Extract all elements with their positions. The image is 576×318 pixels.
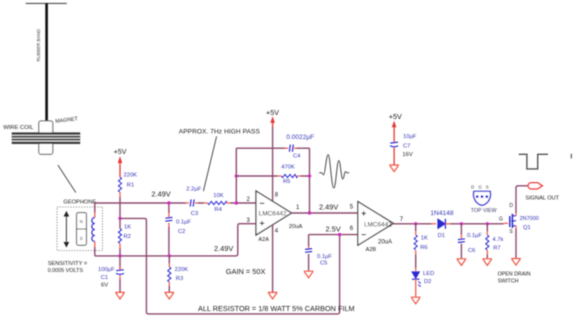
label pin 4 xyxy=(275,228,279,234)
ground: Q1 source xyxy=(511,259,521,266)
svg-text:0.0022µF: 0.0022µF xyxy=(286,134,314,141)
node: divider tap xyxy=(118,217,121,220)
resistor R3 xyxy=(168,267,171,292)
node: R6 tap xyxy=(414,222,417,225)
svg-text:20uA: 20uA xyxy=(378,240,392,246)
node: C6 tap xyxy=(460,222,463,225)
label ALL RESISTOR note xyxy=(198,304,355,313)
svg-text:LMC6442: LMC6442 xyxy=(259,210,287,217)
svg-text:16V: 16V xyxy=(402,152,412,158)
svg-text:R2: R2 xyxy=(124,234,131,240)
transistor Q1 xyxy=(504,213,516,229)
node: R7 tap xyxy=(486,222,489,225)
wire: geophone left vertical (bottom) xyxy=(94,247,96,256)
node: output junction xyxy=(308,211,311,214)
ground: C7 xyxy=(389,165,399,172)
capacitor C6 xyxy=(458,239,465,243)
svg-text:C7: C7 xyxy=(403,143,410,149)
svg-text:1K: 1K xyxy=(124,224,131,230)
svg-text:GAIN = 50X: GAIN = 50X xyxy=(226,267,266,276)
label pin 8 xyxy=(275,193,279,199)
svg-text:10K: 10K xyxy=(213,193,223,199)
svg-text:R1: R1 xyxy=(127,182,134,188)
label pin 1 xyxy=(296,205,300,211)
wire: rail to R3 xyxy=(168,256,170,267)
svg-text:+5V: +5V xyxy=(114,147,127,156)
svg-text:R6: R6 xyxy=(420,245,427,251)
capacitor C4 (series) xyxy=(285,145,296,152)
wire: R2 bottom to rail xyxy=(119,248,121,256)
wire: pin 6 row xyxy=(309,234,358,236)
wire: pin 4 to ground xyxy=(272,225,274,292)
svg-text:2.5V: 2.5V xyxy=(326,224,341,233)
svg-text:7: 7 xyxy=(400,217,404,223)
resistor R1 xyxy=(118,177,121,197)
geophone physical drawing: top support bar xyxy=(26,2,67,4)
svg-text:2: 2 xyxy=(247,197,251,203)
label R7 value xyxy=(492,237,503,252)
ground: R7 xyxy=(483,259,493,266)
tick mark right edge xyxy=(570,154,572,159)
wire: C2 branch vertical xyxy=(168,203,170,256)
svg-text:C2: C2 xyxy=(178,229,185,235)
svg-text:2.49V: 2.49V xyxy=(214,244,233,253)
svg-text:1N4148: 1N4148 xyxy=(430,210,453,217)
resistor R5 (series) xyxy=(278,174,301,177)
resistor R7 xyxy=(486,235,489,250)
pointer line from coil to geophone symbol xyxy=(58,165,76,192)
wire: feedback left vertical xyxy=(235,148,237,203)
wire: feedback R5 row xyxy=(236,175,309,177)
wire: R6/LED branch xyxy=(415,224,417,271)
svg-text:D: D xyxy=(509,203,513,209)
label C5 value xyxy=(317,254,332,267)
label C2 value xyxy=(176,219,191,235)
svg-text:220K: 220K xyxy=(175,267,189,273)
label MAGNET xyxy=(55,116,79,125)
svg-text:0.0005 VOLTS: 0.0005 VOLTS xyxy=(48,268,84,274)
svg-text:G: G xyxy=(499,216,503,222)
label 2.5V xyxy=(326,224,341,233)
svg-text:C1: C1 xyxy=(101,275,108,281)
svg-text:1: 1 xyxy=(296,205,300,211)
resistor R6 xyxy=(414,235,417,250)
svg-text:0.1µF: 0.1µF xyxy=(176,219,191,225)
label D1 value xyxy=(430,210,453,239)
svg-text:WIRE COIL: WIRE COIL xyxy=(3,125,34,131)
svg-text:A2A: A2A xyxy=(258,237,269,243)
square pulse symbol xyxy=(519,154,548,169)
wire: A2A output to A2B pin5 xyxy=(292,212,358,214)
label R6 value xyxy=(420,235,428,250)
transistor top view D G S labels xyxy=(471,184,489,189)
svg-text:R4: R4 xyxy=(214,207,222,213)
label 2.49V (A2B input) xyxy=(319,202,338,211)
node: feedback left mid xyxy=(235,174,238,177)
label D2 value xyxy=(423,271,434,285)
label GAIN = 50X xyxy=(226,267,266,276)
label R5 value xyxy=(281,164,295,185)
svg-text:+5V: +5V xyxy=(266,108,279,117)
svg-text:LMC6442: LMC6442 xyxy=(364,221,392,228)
label WIRE COIL xyxy=(3,125,34,131)
svg-text:20uA: 20uA xyxy=(289,224,303,230)
op-amp U1B xyxy=(358,202,394,253)
svg-text:2N7000: 2N7000 xyxy=(520,216,539,222)
geophone symbol: magnet N/S xyxy=(77,213,87,246)
svg-text:C3: C3 xyxy=(191,211,198,217)
svg-text:OPEN DRAIN: OPEN DRAIN xyxy=(498,272,531,278)
node: feedback right mid xyxy=(308,174,311,177)
ground: LED xyxy=(411,297,421,304)
label APPROX 7Hz HIGH PASS xyxy=(179,129,261,136)
wire: Q1 source down xyxy=(515,229,517,258)
svg-text:MAGNET: MAGNET xyxy=(55,116,79,125)
svg-text:GEOPHONE: GEOPHONE xyxy=(63,199,96,205)
geophone physical drawing: wire coil bars xyxy=(12,132,81,144)
svg-text:5: 5 xyxy=(350,204,354,210)
+5V power for C7 xyxy=(389,112,402,142)
geophone physical drawing: magnet body xyxy=(39,121,53,154)
label R3 value xyxy=(175,267,189,282)
wire: R7 branch xyxy=(486,224,488,258)
svg-text:+5V: +5V xyxy=(389,112,402,121)
geophone physical drawing: rubber band (thick vertical line) xyxy=(45,3,48,121)
svg-text:N: N xyxy=(80,219,83,224)
seismic waveform squiggle xyxy=(319,155,349,188)
wire: feedback right vertical xyxy=(309,148,311,213)
label C1 value xyxy=(98,267,115,289)
label C4 value xyxy=(286,134,314,160)
svg-text:TOP VIEW: TOP VIEW xyxy=(471,208,497,214)
node: rail at C2/R3 xyxy=(168,254,171,257)
geophone symbol dashed box xyxy=(57,207,103,251)
label SENSITIVITY xyxy=(48,261,88,274)
label R2 value xyxy=(124,224,132,240)
label pin 7 xyxy=(400,217,404,223)
label TOP VIEW xyxy=(471,208,497,214)
svg-text:SIGNAL OUT: SIGNAL OUT xyxy=(525,195,559,201)
svg-text:R3: R3 xyxy=(176,276,183,282)
label pin 5 xyxy=(350,204,354,210)
svg-text:ALL RESISTOR = 1/8 WATT 5% CAR: ALL RESISTOR = 1/8 WATT 5% CARBON FILM xyxy=(198,304,355,313)
wire: pin 8 vertical xyxy=(272,127,274,201)
resistor R2 xyxy=(118,229,121,248)
wire: bottom rail to pin3 xyxy=(95,224,256,256)
ground: C5 xyxy=(304,271,314,278)
svg-text:6: 6 xyxy=(350,226,354,232)
wire: C5 branch xyxy=(308,235,310,271)
label RUBBER BAND (rotated) xyxy=(36,28,41,61)
ground: op-amp pin 4 xyxy=(268,292,278,299)
svg-text:SENSITIVITY =: SENSITIVITY = xyxy=(48,261,88,267)
svg-text:S: S xyxy=(80,236,83,241)
wire: R1 to R2 through junction xyxy=(119,197,121,229)
svg-text:G: G xyxy=(478,184,482,189)
node: rail at R2/C1 xyxy=(118,254,121,257)
wire: geophone left vertical (top) xyxy=(94,202,96,212)
label OPEN DRAIN SWITCH xyxy=(498,272,531,285)
svg-text:0.1µF: 0.1µF xyxy=(467,233,482,239)
diode D1 xyxy=(432,219,450,229)
svg-text:10µF: 10µF xyxy=(403,134,417,140)
label GEOPHONE xyxy=(63,199,96,205)
svg-text:SWITCH: SWITCH xyxy=(498,278,519,284)
svg-text:2.2µF: 2.2µF xyxy=(186,187,201,193)
transistor TO-92 top view xyxy=(474,191,491,205)
svg-text:0.1µF: 0.1µF xyxy=(317,254,332,260)
svg-text:R5: R5 xyxy=(283,179,290,185)
label R4 value xyxy=(213,193,223,213)
svg-text:4: 4 xyxy=(275,228,279,234)
label R1 value xyxy=(124,172,138,188)
svg-text:Q1: Q1 xyxy=(523,225,531,231)
wire: feedback top with C4 xyxy=(236,147,309,149)
ground: C1 xyxy=(115,292,125,299)
svg-text:100µF: 100µF xyxy=(98,267,115,273)
label C6 value xyxy=(467,233,482,254)
svg-text:APPROX. 7Hz HIGH PASS: APPROX. 7Hz HIGH PASS xyxy=(179,129,261,136)
wire: divider tap to pin6 (long bottom route) xyxy=(120,218,340,314)
svg-text:220K: 220K xyxy=(124,172,138,178)
node: feedback left bottom xyxy=(235,201,238,204)
label pin 6 xyxy=(350,226,354,232)
op-amp U1A xyxy=(256,191,292,243)
wire: Q1 drain up to signal out xyxy=(516,186,529,213)
svg-text:R7: R7 xyxy=(493,246,500,252)
svg-text:A2B: A2B xyxy=(366,247,377,253)
svg-text:D2: D2 xyxy=(424,279,431,285)
label 20uA B xyxy=(378,240,392,246)
pointer line for high pass note xyxy=(203,136,216,191)
+5V power for op-amp pin 8 xyxy=(266,108,279,128)
svg-text:D1: D1 xyxy=(438,233,445,239)
resistor R4 (series) xyxy=(204,201,230,204)
label 20uA A xyxy=(289,224,303,230)
label 2.49V (pin3 rail) xyxy=(214,244,233,253)
capacitor C7 xyxy=(390,142,398,165)
svg-text:2.49V: 2.49V xyxy=(151,190,170,199)
svg-text:C4: C4 xyxy=(293,154,301,160)
svg-text:4.7k: 4.7k xyxy=(492,237,503,243)
ground: R3 xyxy=(165,292,175,299)
geophone symbol: motion double arrow xyxy=(64,212,68,247)
wire: rail to C1 xyxy=(119,256,121,270)
label C3 value xyxy=(186,187,201,217)
svg-text:S: S xyxy=(509,229,513,235)
label Q1 D G S pins xyxy=(499,203,513,235)
svg-text:1K: 1K xyxy=(421,235,428,241)
label SIGNAL OUT xyxy=(525,195,559,201)
svg-text:D: D xyxy=(471,184,474,189)
node: C2 top xyxy=(167,201,170,204)
ground: C6 xyxy=(457,259,467,266)
svg-text:C5: C5 xyxy=(320,261,327,267)
capacitor C5 xyxy=(305,249,312,253)
capacitor C1 xyxy=(116,270,124,292)
label C7 value xyxy=(402,134,416,158)
label pin 3 xyxy=(247,218,251,224)
svg-text:RUBBER BAND: RUBBER BAND xyxy=(36,28,41,61)
svg-text:LED: LED xyxy=(423,271,434,277)
+5V power for R1 xyxy=(114,147,127,177)
node: pin6 / bottom route xyxy=(338,233,341,236)
label pin 2 xyxy=(247,197,251,203)
wire: geophone top to C3/R4/pin2 xyxy=(95,202,256,204)
wire: A2B output row xyxy=(393,223,503,225)
svg-text:470K: 470K xyxy=(281,164,295,170)
label 2.49V (top wire) xyxy=(151,190,170,199)
label Q1 value xyxy=(520,216,539,231)
wire: C6 branch xyxy=(460,224,462,258)
svg-text:C6: C6 xyxy=(468,248,475,254)
connector SIGNAL OUT pill xyxy=(528,183,542,189)
svg-text:6V: 6V xyxy=(101,283,108,289)
capacitor C2 xyxy=(165,217,172,221)
capacitor C3 (series) xyxy=(186,199,198,206)
svg-text:2.49V: 2.49V xyxy=(319,202,338,211)
LED D2 xyxy=(412,272,421,297)
geophone coil inductor xyxy=(92,212,95,248)
svg-text:S: S xyxy=(486,184,489,189)
svg-text:8: 8 xyxy=(275,193,279,199)
